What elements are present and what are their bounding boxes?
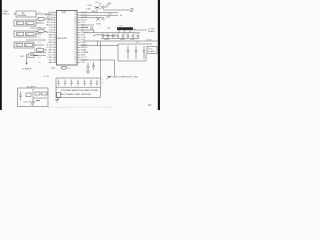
wire C431 drop bbox=[93, 30, 95, 33]
svg-text:15: 15 bbox=[54, 46, 56, 48]
svg-text:TO P: TO P bbox=[148, 48, 153, 50]
wire J204 to U201 bbox=[34, 44, 44, 46]
wire FBT leads bbox=[119, 30, 130, 33]
svg-text:LM1203N: LM1203N bbox=[57, 38, 67, 40]
AC input box bbox=[18, 88, 49, 107]
connector J201 bbox=[16, 11, 36, 17]
wire AC row bbox=[33, 97, 47, 99]
svg-text:R448: R448 bbox=[120, 39, 125, 41]
wire video bus 1 bbox=[81, 12, 119, 14]
ground G2 bbox=[55, 100, 59, 103]
svg-text:TO MAIN B: TO MAIN B bbox=[22, 68, 32, 71]
svg-text:T471: T471 bbox=[119, 25, 123, 27]
svg-text:V2: V2 bbox=[17, 34, 19, 36]
svg-text:34: 34 bbox=[74, 31, 76, 33]
svg-text:0.1: 0.1 bbox=[38, 47, 40, 49]
svg-text:0.1: 0.1 bbox=[38, 32, 40, 34]
connector J202 bbox=[14, 20, 36, 26]
svg-text:16: 16 bbox=[54, 49, 56, 51]
svg-text:25: 25 bbox=[74, 54, 76, 56]
svg-text:33: 33 bbox=[74, 34, 76, 36]
node P201 input labels bbox=[3, 10, 10, 16]
PSU capacitor row C601-C607 bbox=[57, 80, 98, 87]
top-right +B node bbox=[86, 2, 100, 13]
svg-text:21: 21 bbox=[54, 61, 56, 63]
svg-text:110V-220V SET: 110V-220V SET bbox=[23, 102, 37, 104]
svg-text:C407: C407 bbox=[101, 19, 106, 21]
svg-text:26: 26 bbox=[74, 51, 76, 53]
resistor R602 bbox=[35, 92, 40, 95]
svg-text:C408: C408 bbox=[91, 11, 96, 13]
wire pin rows right ext bbox=[81, 25, 95, 30]
wire row C IN bbox=[26, 39, 46, 41]
svg-text:31: 31 bbox=[74, 39, 76, 41]
svg-text:23: 23 bbox=[74, 59, 76, 61]
svg-text:SWITCHING POWER SUPPLY UNIT: SWITCHING POWER SUPPLY UNIT bbox=[107, 77, 139, 79]
svg-text:30: 30 bbox=[74, 41, 76, 43]
PSU caption rows bbox=[61, 89, 99, 96]
svg-text:32: 32 bbox=[74, 36, 76, 38]
svg-text:C4: C4 bbox=[135, 34, 137, 36]
svg-text:28: 28 bbox=[74, 46, 76, 48]
node left value labels bbox=[38, 12, 40, 64]
right page edge bar bbox=[158, 0, 160, 110]
transistor Q401 bbox=[107, 2, 112, 5]
svg-text:14: 14 bbox=[54, 44, 56, 46]
svg-text:29: 29 bbox=[74, 44, 76, 46]
diode D601 bbox=[36, 100, 40, 102]
resistor R203 bbox=[36, 18, 53, 21]
svg-text:40: 40 bbox=[74, 16, 76, 18]
wire P471 drop bbox=[145, 54, 147, 62]
capacitor loop frame bbox=[118, 44, 152, 61]
svg-text:0.1: 0.1 bbox=[38, 17, 40, 19]
capacitor C471 bbox=[127, 46, 130, 59]
node ABL labels bbox=[104, 39, 135, 41]
svg-text:L402: L402 bbox=[106, 16, 110, 18]
transformer T601 bbox=[57, 92, 61, 99]
svg-text:C452: C452 bbox=[130, 39, 135, 41]
wire J201 to U201 bbox=[36, 13, 53, 15]
capacitor C472 bbox=[135, 46, 138, 59]
svg-text:0.1: 0.1 bbox=[38, 42, 40, 44]
resistor R210 bbox=[36, 30, 47, 33]
svg-text:0.1: 0.1 bbox=[38, 27, 40, 29]
resistor R215 bbox=[34, 49, 47, 52]
capacitor bank C441-C448 bbox=[102, 33, 139, 39]
svg-text:-66-: -66- bbox=[148, 104, 152, 107]
svg-text:R401: R401 bbox=[88, 5, 93, 7]
wire PSU mid bbox=[56, 86, 101, 88]
svg-text:R433: R433 bbox=[103, 7, 108, 9]
svg-text:AC INPUT: AC INPUT bbox=[27, 85, 37, 88]
wire SW stub bbox=[34, 55, 38, 57]
wire left row2 bbox=[30, 54, 46, 56]
wire ABL long bbox=[84, 40, 158, 42]
svg-text:0.1: 0.1 bbox=[38, 22, 40, 24]
wire SW201 drop bbox=[26, 54, 28, 65]
resistor R603 bbox=[42, 92, 48, 95]
connector J203 bbox=[14, 31, 36, 37]
capacitor C221 bbox=[92, 62, 95, 70]
svg-text:TERMINAL: TERMINAL bbox=[17, 14, 27, 17]
wire pin22 to drop bbox=[81, 59, 115, 61]
power supply box PSU bbox=[56, 78, 101, 98]
IC U201 right pins bbox=[74, 11, 89, 64]
svg-text:BOARD: BOARD bbox=[148, 50, 155, 53]
right out labels bbox=[133, 29, 156, 42]
svg-text:24: 24 bbox=[74, 56, 76, 58]
svg-text:41: 41 bbox=[74, 14, 76, 16]
svg-text:C443: C443 bbox=[104, 39, 109, 41]
svg-text:4.4: 4.4 bbox=[68, 68, 70, 70]
svg-text:0.1: 0.1 bbox=[38, 37, 40, 39]
svg-text:R2: R2 bbox=[99, 4, 101, 6]
svg-text:0.1: 0.1 bbox=[38, 62, 40, 64]
left page edge bar bbox=[0, 0, 2, 110]
capacitor C431 bbox=[90, 27, 93, 30]
ground G1 bbox=[86, 71, 90, 73]
svg-text:38: 38 bbox=[74, 21, 76, 23]
svg-text:BOARD: BOARD bbox=[148, 30, 155, 33]
svg-text:18: 18 bbox=[54, 54, 56, 56]
wire row Y IN bbox=[30, 27, 46, 29]
wire junction v1 bbox=[97, 41, 99, 46]
wire SDA long bbox=[81, 45, 119, 47]
svg-text:S/M: S/M bbox=[20, 56, 24, 58]
inductor L441 bbox=[93, 34, 116, 35]
capacitor C220 bbox=[87, 63, 90, 71]
wire J202 to U201 bbox=[36, 22, 44, 24]
svg-text:20: 20 bbox=[54, 59, 56, 61]
wire J201 left stub bbox=[13, 13, 16, 15]
capacitor C406 bbox=[99, 4, 104, 9]
svg-text:AC IN: AC IN bbox=[44, 75, 49, 78]
wire mid bus bbox=[84, 32, 140, 34]
wire cap bank lower rail bbox=[101, 38, 139, 40]
svg-text:0.1: 0.1 bbox=[38, 12, 40, 14]
connector P471 bbox=[147, 47, 157, 54]
svg-text:AC POWER CORD 110V/220V: AC POWER CORD 110V/220V bbox=[61, 93, 92, 96]
svg-text:27: 27 bbox=[74, 49, 76, 51]
svg-text:D471: D471 bbox=[107, 27, 111, 29]
capacitor C407 bbox=[96, 17, 106, 21]
svg-text:22: 22 bbox=[74, 61, 76, 63]
IC U201 body bbox=[57, 11, 78, 66]
wire CRT line bbox=[103, 8, 133, 11]
svg-text:V1: V1 bbox=[17, 23, 19, 25]
svg-text:19: 19 bbox=[54, 56, 56, 58]
svg-text:PB(2.0): PB(2.0) bbox=[3, 13, 10, 15]
svg-text:R407: R407 bbox=[97, 24, 102, 26]
svg-text:X201: X201 bbox=[51, 68, 55, 70]
wire drop to PSU bbox=[100, 41, 102, 78]
svg-text:17: 17 bbox=[54, 51, 56, 53]
svg-text:35: 35 bbox=[74, 29, 76, 31]
svg-text:12: 12 bbox=[54, 39, 56, 41]
svg-text:V3: V3 bbox=[17, 45, 19, 47]
node FBT labels bbox=[105, 13, 137, 36]
wire left row1 bbox=[30, 52, 46, 54]
svg-text:13: 13 bbox=[54, 41, 56, 43]
wire right drop bbox=[114, 60, 116, 76]
wire AC vertical bbox=[32, 89, 34, 103]
svg-text:10: 10 bbox=[54, 34, 56, 36]
capacitor C473 bbox=[143, 46, 146, 59]
FBT T471 dark body bbox=[117, 27, 133, 30]
wire dashed baseline bbox=[48, 106, 112, 108]
svg-text:C405: C405 bbox=[86, 9, 91, 11]
svg-text:42: 42 bbox=[74, 11, 76, 13]
wire video bus 3 bbox=[81, 17, 105, 19]
svg-text:P2(A): P2(A) bbox=[3, 10, 8, 13]
svg-text:39: 39 bbox=[74, 19, 76, 21]
connector J204 bbox=[14, 42, 34, 48]
arrow to PSU bbox=[107, 76, 111, 80]
IC U201 left pins bbox=[45, 11, 56, 64]
resistor R601 bbox=[26, 93, 31, 96]
svg-text:11: 11 bbox=[54, 36, 56, 38]
svg-text:VOLTAGE SELECTOR SWITCH UNIT: VOLTAGE SELECTOR SWITCH UNIT bbox=[61, 89, 99, 92]
capacitor C601 bbox=[17, 92, 22, 101]
svg-text:36: 36 bbox=[74, 26, 76, 28]
crystal X202 bbox=[61, 67, 71, 71]
wire video bus 2 bbox=[81, 14, 119, 16]
node top-right labels bbox=[91, 7, 110, 26]
ground G3 bbox=[31, 103, 35, 105]
svg-text:R440: R440 bbox=[108, 13, 112, 15]
svg-text:0.1: 0.1 bbox=[38, 57, 40, 59]
svg-text:C3: C3 bbox=[125, 34, 127, 36]
wire J203 to U201 bbox=[36, 33, 42, 35]
svg-text:37: 37 bbox=[74, 24, 76, 26]
switch SW201 bbox=[20, 54, 34, 58]
